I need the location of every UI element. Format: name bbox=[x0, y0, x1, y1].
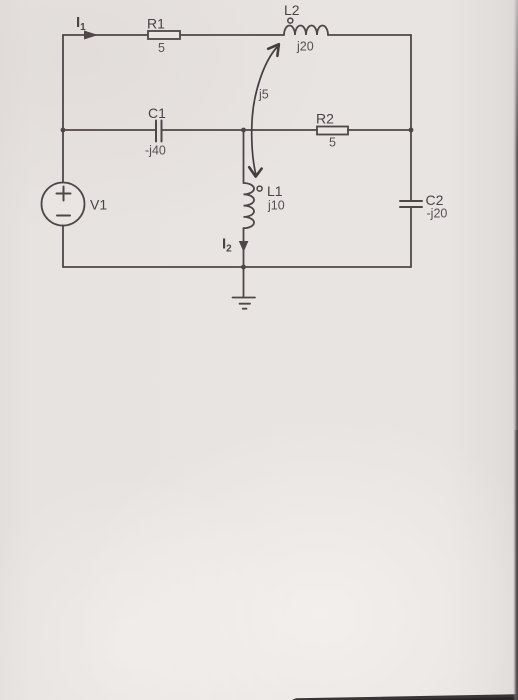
wire left vertical upper bbox=[62, 35, 64, 183]
node at ground on bottom wire bbox=[241, 265, 246, 270]
wire middle C1 to R2 bbox=[162, 129, 318, 131]
node at L1 branch on middle wire bbox=[241, 128, 246, 133]
inductor L1 bbox=[244, 183, 255, 228]
mutual coupling arrow j5 bbox=[249, 44, 279, 176]
node at C1 branch on left wire bbox=[61, 128, 66, 133]
wire left vertical lower bbox=[62, 226, 64, 268]
svg-text:V1: V1 bbox=[90, 197, 107, 213]
resistor R1 bbox=[148, 31, 180, 39]
wire middle branch down to L1 bbox=[243, 130, 245, 183]
svg-text:I2: I2 bbox=[222, 236, 232, 255]
svg-text:L2: L2 bbox=[284, 2, 300, 18]
svg-text:j20: j20 bbox=[296, 40, 314, 54]
voltage source V1 bbox=[42, 183, 85, 226]
ground bbox=[233, 267, 256, 309]
arrow of current I1 bbox=[84, 31, 98, 40]
inductor L2 bbox=[284, 26, 328, 36]
wire top from left corner to L2 bbox=[63, 34, 284, 36]
wire top from L2 to right corner bbox=[328, 34, 411, 36]
wire right vertical upper bbox=[410, 35, 412, 201]
wire L1 to bottom bbox=[243, 228, 245, 267]
dot marker circle of L1 bbox=[257, 186, 262, 191]
arrow of current I2 bbox=[239, 241, 249, 252]
node at R2 right on right wire bbox=[409, 128, 414, 133]
svg-text:-j40: -j40 bbox=[145, 144, 166, 158]
resistor R2 bbox=[317, 127, 348, 135]
svg-text:R1: R1 bbox=[147, 16, 165, 32]
wire middle left of C1 bbox=[63, 129, 156, 131]
svg-text:R2: R2 bbox=[316, 111, 334, 127]
svg-text:-j20: -j20 bbox=[427, 207, 448, 221]
capacitor C1 bbox=[156, 121, 162, 142]
capacitor C2 bbox=[400, 201, 422, 207]
svg-text:5: 5 bbox=[158, 41, 165, 55]
svg-text:I1: I1 bbox=[76, 14, 86, 33]
svg-text:C1: C1 bbox=[148, 105, 166, 121]
svg-text:j5: j5 bbox=[258, 88, 269, 102]
dot marker circle of L2 bbox=[288, 18, 293, 23]
svg-text:5: 5 bbox=[329, 136, 336, 150]
wire bottom bbox=[63, 266, 411, 268]
wire right vertical lower bbox=[410, 207, 412, 267]
photo dark strip bottom edge bbox=[292, 694, 518, 700]
svg-text:L1: L1 bbox=[267, 183, 283, 199]
wire middle R2 to right bbox=[348, 129, 411, 131]
svg-text:j10: j10 bbox=[267, 199, 285, 213]
